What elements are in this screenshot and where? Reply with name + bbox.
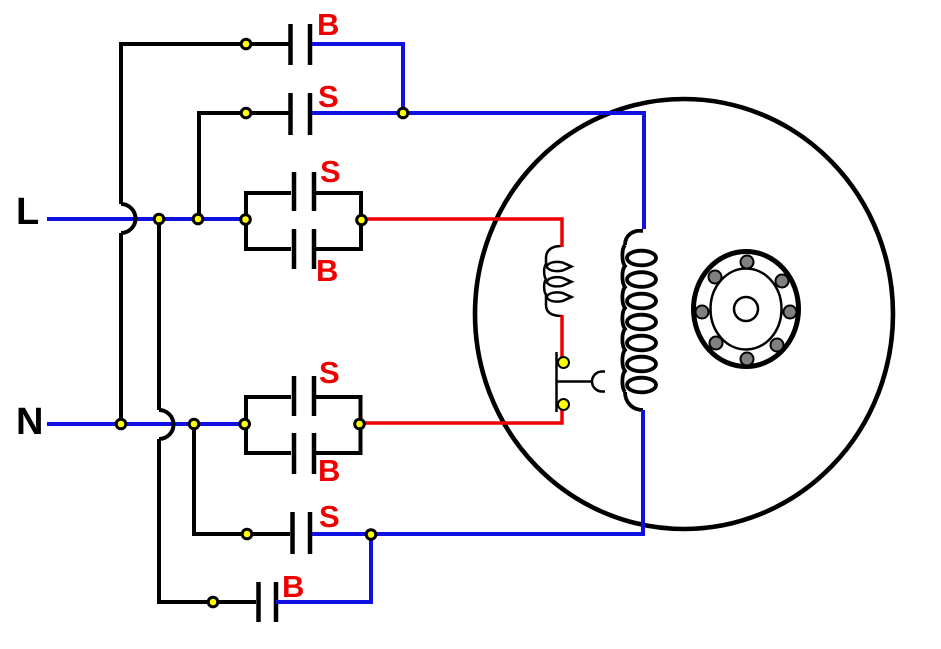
svg-text:S: S bbox=[319, 355, 340, 390]
svg-text:B: B bbox=[318, 453, 340, 488]
svg-text:S: S bbox=[319, 499, 340, 534]
svg-text:B: B bbox=[282, 569, 304, 604]
svg-text:S: S bbox=[320, 154, 341, 189]
svg-text:B: B bbox=[316, 253, 338, 288]
svg-text:S: S bbox=[318, 79, 339, 114]
svg-text:N: N bbox=[16, 401, 43, 443]
svg-text:B: B bbox=[317, 7, 339, 42]
svg-text:L: L bbox=[16, 191, 39, 233]
